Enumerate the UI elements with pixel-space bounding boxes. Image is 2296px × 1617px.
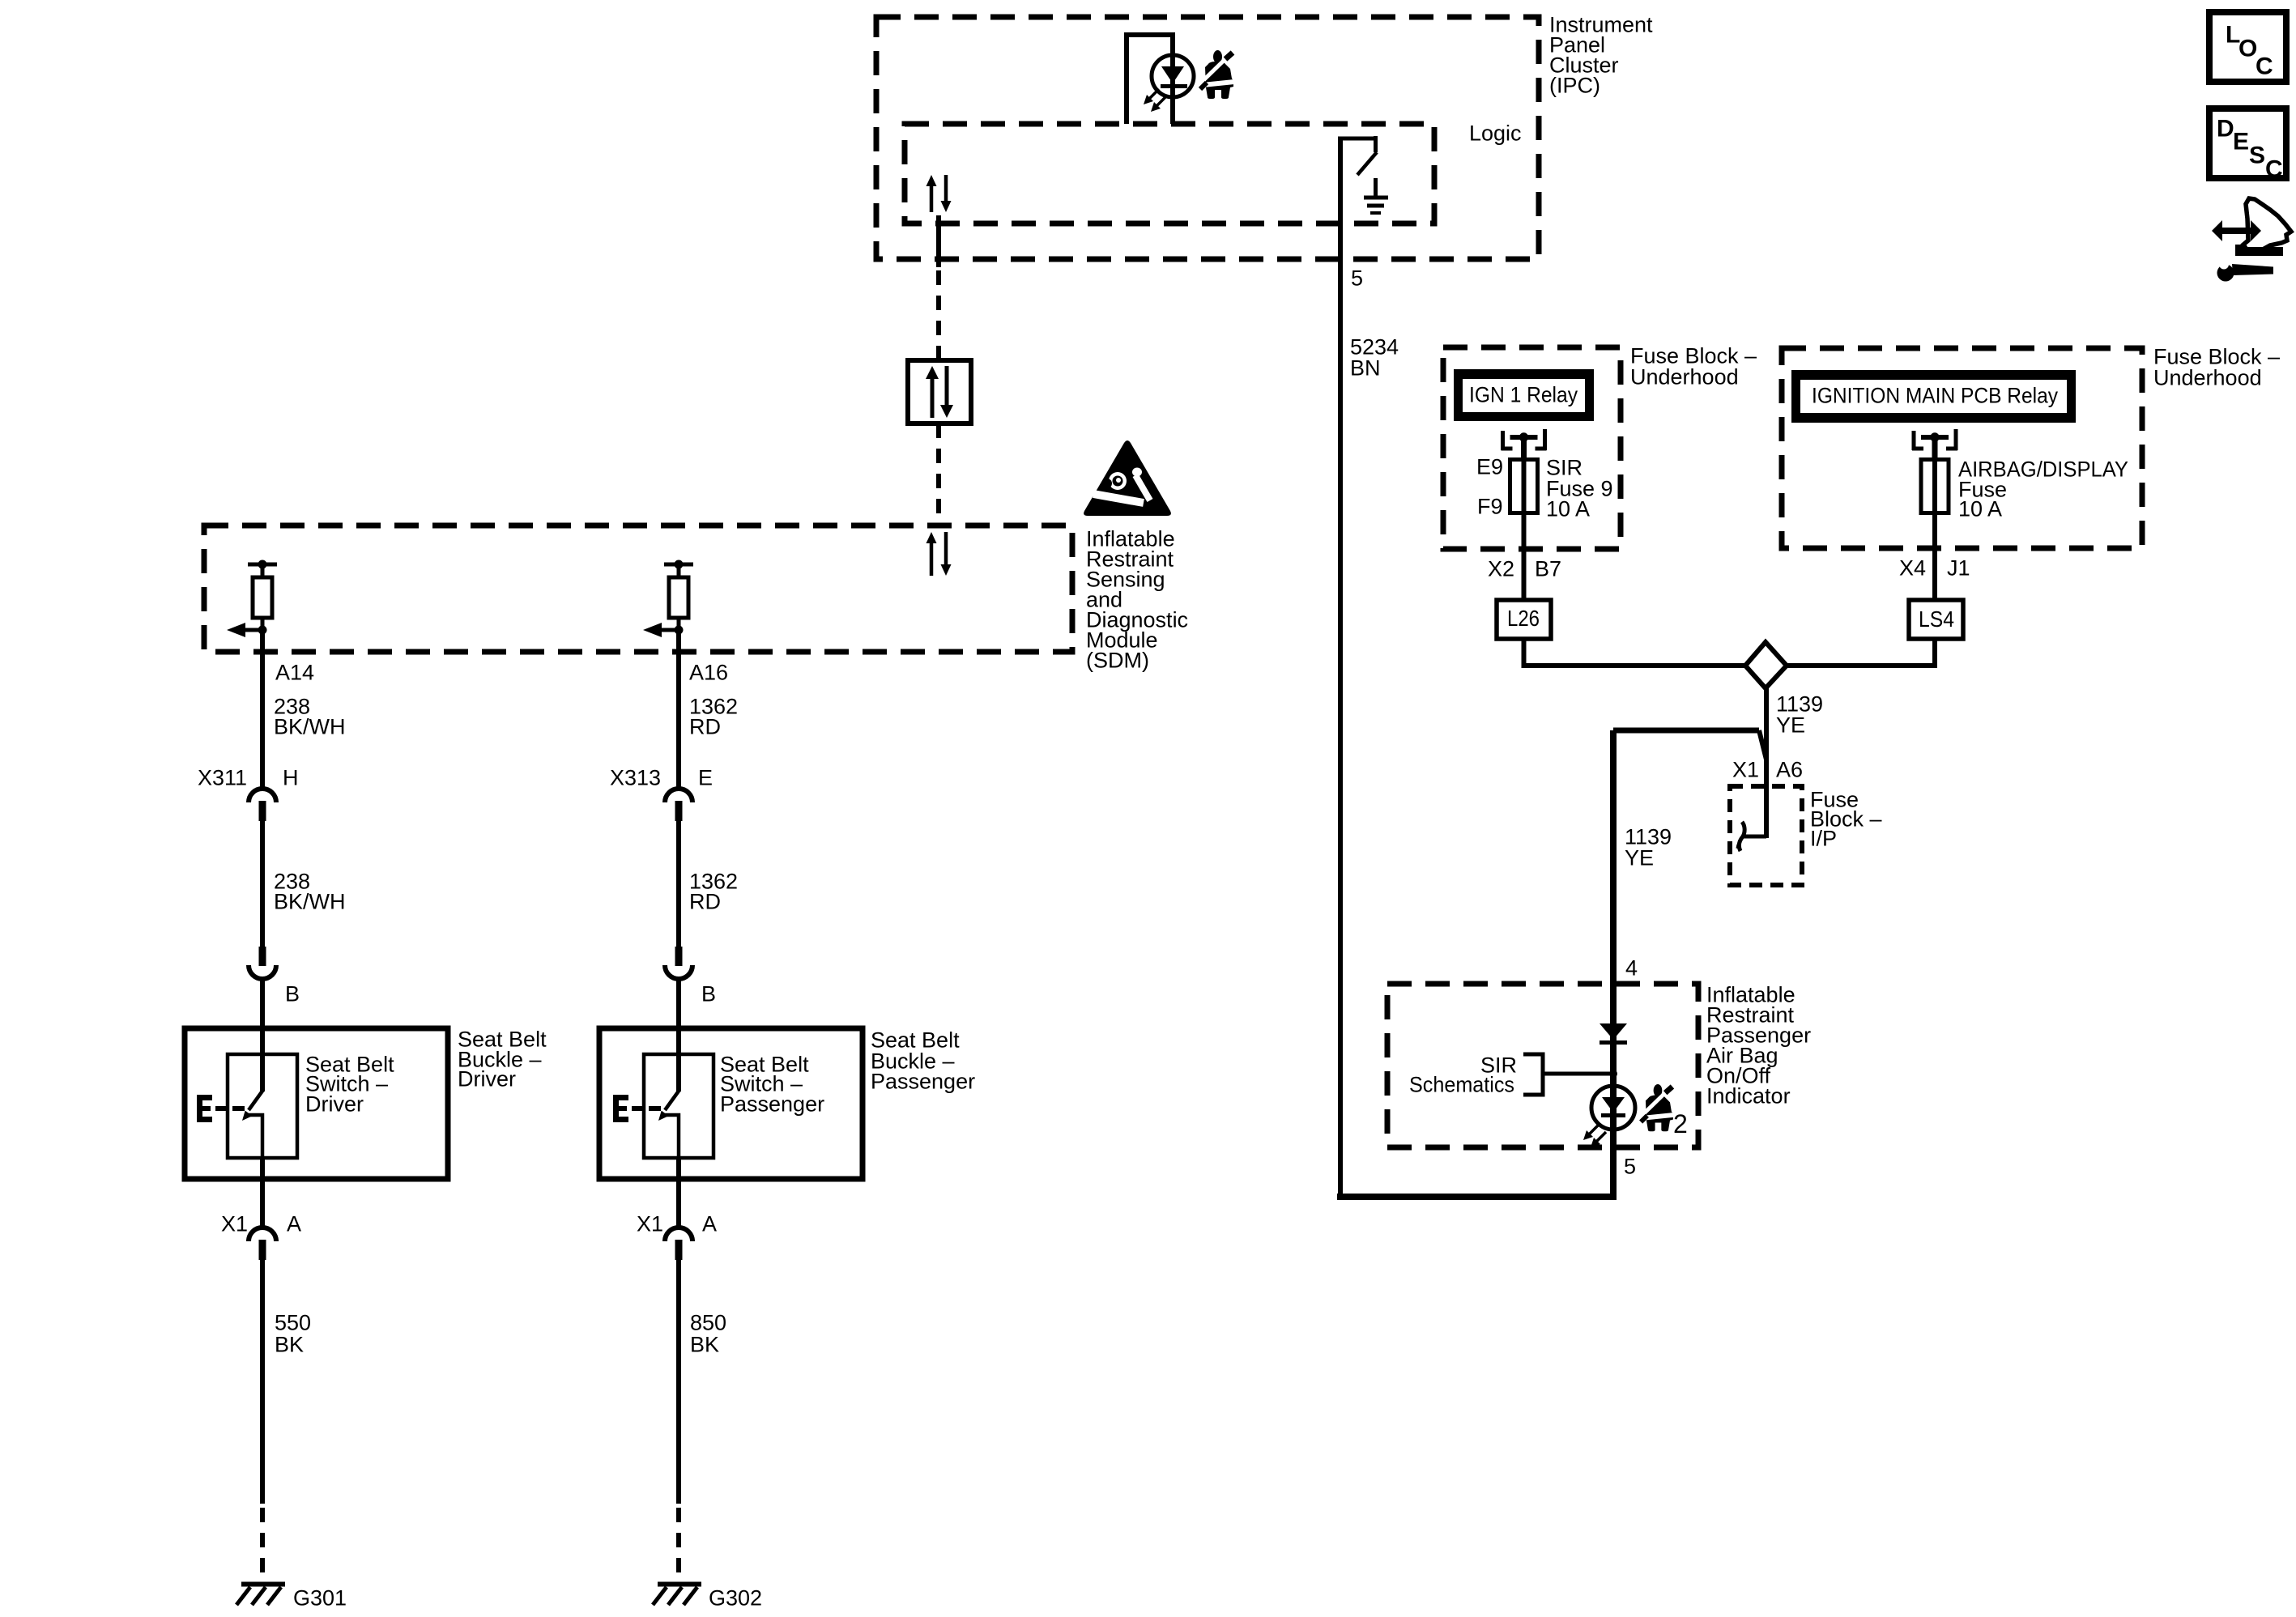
icon: double arrow (legend): [2212, 220, 2261, 241]
box: Seat Belt Switch - Passenger (inner): [644, 1054, 714, 1158]
wire: lamp loop in IPC: [1124, 35, 1175, 124]
svg-text:RD: RD: [689, 714, 721, 738]
diode: indicator input: [1600, 1023, 1627, 1045]
switch: seat belt switch blade (Driver): [242, 1090, 263, 1121]
label: L26: [1507, 606, 1540, 631]
wire: from relay through AIRBAG/DISPLAY fuse to X4-J1: [1932, 458, 1937, 600]
switch: fixed contact (Driver): [245, 1115, 262, 1158]
wire: circuit 850 BK to ground: [676, 1260, 681, 1578]
svg-text:5: 5: [1624, 1154, 1636, 1178]
wire: into seat belt buckle driver: [260, 979, 265, 1091]
label: X311 / H: [198, 765, 299, 789]
svg-text:10 A: 10 A: [1546, 496, 1590, 521]
label: AIRBAG/DISPLAY Fuse 10 A: [1958, 457, 2128, 521]
pin label: A14: [275, 660, 314, 684]
svg-text:E: E: [2233, 129, 2249, 155]
connector X313 pin E (in-line): [665, 789, 692, 821]
wire: 1362 RD between connectors: [676, 821, 681, 947]
svg-text:Passenger: Passenger: [871, 1069, 975, 1093]
svg-text:J1: J1: [1947, 555, 1970, 580]
box: Fuse Block - I/P (dashed): [1730, 786, 1802, 885]
icon: seat belt wearer pictogram (indicator): [1641, 1084, 1674, 1131]
wire: circuit 1362 RD from SDM A16: [676, 630, 681, 789]
svg-text:A14: A14: [275, 660, 314, 684]
svg-text:Driver: Driver: [458, 1066, 516, 1091]
icon: hand outline (legend): [2243, 198, 2291, 249]
switch: fixed contact (Passenger): [661, 1115, 679, 1158]
wire label: 1362 RD: [689, 694, 738, 738]
box: Seat Belt Buckle - Passenger: [599, 1028, 863, 1179]
svg-text:(SDM): (SDM): [1086, 648, 1149, 672]
svg-text:X4: X4: [1899, 555, 1926, 580]
label: LS4: [1919, 606, 1954, 632]
svg-text:BN: BN: [1350, 355, 1381, 380]
wire: circuit 1139 YE down to indicator pin 4: [1610, 730, 1617, 1197]
box: Instrument Panel Cluster (IPC) dashed outline: [876, 17, 1539, 259]
relay contact feed (IGNITION MAIN PCB Relay): [1912, 429, 1957, 460]
svg-text:G301: G301: [293, 1585, 347, 1610]
label: 2: [1673, 1109, 1688, 1138]
label: Seat Belt Buckle - Passenger: [871, 1028, 975, 1093]
switch to ground inside Logic (IPC output driver): [1338, 136, 1378, 175]
svg-text:H: H: [283, 765, 299, 789]
wire label: 550 BK: [275, 1310, 311, 1356]
svg-text:C: C: [2256, 53, 2273, 80]
wire: 238 BK/WH between connectors: [260, 821, 265, 947]
LED: passenger air bag on/off indicator lamp: [1591, 1086, 1635, 1130]
wire label: 1139 YE (at splice): [1776, 691, 1823, 737]
svg-text:(IPC): (IPC): [1549, 73, 1600, 97]
label: X2 / B7: [1488, 556, 1561, 581]
label: E (engaged position, Driver): [197, 1095, 245, 1122]
wire: circuit 238 BK/WH from SDM A14: [260, 630, 265, 789]
svg-text:10 A: 10 A: [1958, 496, 2002, 521]
box: Inflatable Restraint Sensing and Diagnostic Module (SDM) dashed outline: [204, 526, 1072, 652]
svg-text:Logic: Logic: [1469, 121, 1522, 145]
svg-text:E9: E9: [1476, 454, 1503, 479]
label: LOC letters: [2226, 22, 2273, 80]
wire label: 850 BK: [690, 1310, 726, 1356]
svg-text:X311: X311: [198, 765, 247, 789]
svg-text:B: B: [285, 981, 300, 1006]
label: Logic: [1469, 121, 1522, 145]
connector code box L26: [1497, 600, 1551, 639]
svg-text:5: 5: [1351, 266, 1363, 290]
wire: into seat belt buckle passenger: [676, 979, 681, 1091]
svg-text:RD: RD: [689, 889, 721, 913]
ground G302: [653, 1585, 701, 1606]
label: X1 / A (passenger): [637, 1211, 717, 1236]
wire: IPC serial data line (pin to SDM): [936, 215, 941, 360]
wire: buckle passenger to connector X1: [676, 1158, 681, 1228]
label: B (driver): [285, 981, 300, 1006]
LED light arrows (indicator lamp): [1583, 1125, 1606, 1147]
box: Fuse Block - Underhood (right, dashed): [1782, 348, 2142, 548]
wire: branch to indicator (angled tap): [1613, 730, 1766, 760]
svg-text:B: B: [701, 981, 716, 1006]
wire label: 5234 BN: [1350, 334, 1399, 380]
svg-text:D: D: [2217, 116, 2234, 143]
arrow: signal direction (passenger branch): [643, 623, 677, 637]
svg-text:B7: B7: [1535, 556, 1561, 581]
svg-text:YE: YE: [1776, 713, 1805, 737]
svg-text:Driver: Driver: [305, 1091, 364, 1116]
box: Logic dashed outline inside IPC: [905, 124, 1434, 223]
label: IGN 1 Relay: [1469, 382, 1578, 406]
label: E9 / F9: [1476, 454, 1503, 518]
wire label: 238 BK/WH: [274, 694, 346, 738]
symbol: circuit continuation hook inside fuse block I/P: [1736, 822, 1766, 851]
label: X1 / A (driver): [221, 1211, 301, 1236]
connector code box LS4: [1909, 600, 1963, 639]
legend box: LOC: [2209, 12, 2286, 82]
splice: diamond junction: [1745, 642, 1787, 688]
svg-text:S: S: [2249, 143, 2265, 169]
svg-text:IGN 1 Relay: IGN 1 Relay: [1469, 382, 1578, 406]
svg-text:BK/WH: BK/WH: [274, 714, 346, 738]
svg-text:X313: X313: [610, 765, 661, 789]
label: Inflatable Restraint Passenger Air Bag On/Off Indicator: [1706, 982, 1811, 1108]
resistor: SDM pull-up (passenger branch): [664, 560, 693, 635]
svg-text:YE: YE: [1625, 845, 1654, 870]
connector X1 pin A (driver): [249, 1228, 276, 1260]
connector X1 pin A (passenger): [665, 1228, 692, 1260]
wire label: 1362 RD (lower): [689, 869, 738, 913]
label: SIR Schematics (reference): [1409, 1053, 1517, 1096]
pin label: 5 (IPC): [1351, 266, 1363, 290]
ground symbol inside Logic: [1364, 178, 1388, 213]
relay IGN 1 Relay (title box): [1454, 369, 1594, 421]
label: X313 / E: [610, 765, 713, 789]
svg-text:Passenger: Passenger: [720, 1091, 824, 1116]
label: Seat Belt Buckle - Driver: [458, 1027, 547, 1091]
svg-text:4: 4: [1625, 955, 1638, 980]
connector pin B (seat belt switch passenger): [665, 947, 692, 979]
svg-text:X2: X2: [1488, 556, 1514, 581]
wire: from relay through SIR fuse to X2-B7: [1522, 458, 1527, 600]
svg-text:F9: F9: [1477, 494, 1503, 518]
svg-text:Indicator: Indicator: [1706, 1083, 1791, 1108]
svg-text:X1: X1: [1732, 757, 1759, 781]
pin label: 4: [1625, 955, 1638, 980]
label: Seat Belt Switch - Passenger: [720, 1052, 824, 1116]
node: junction at indicator LED: [1609, 1070, 1617, 1078]
connector pin B (seat belt switch driver): [249, 947, 276, 979]
svg-text:Underhood: Underhood: [2153, 365, 2262, 389]
svg-text:A: A: [702, 1211, 717, 1236]
label: B (passenger): [701, 981, 716, 1006]
box: Fuse Block - Underhood (left, dashed): [1443, 347, 1621, 549]
pin label: 5 (indicator): [1624, 1154, 1636, 1178]
svg-text:C: C: [2265, 156, 2283, 183]
label: Fuse Block - Underhood (left): [1630, 343, 1757, 389]
label: G301: [293, 1585, 347, 1610]
wire: bottom return run to indicator pin 5: [1337, 1147, 1617, 1197]
resistor: SDM pull-up (driver branch): [248, 560, 277, 635]
fuse: SIR Fuse 9 10 A: [1510, 460, 1538, 513]
label: Inflatable Restraint Sensing and Diagnostic Module (SDM): [1086, 526, 1188, 672]
svg-text:LS4: LS4: [1919, 606, 1954, 632]
svg-text:A: A: [287, 1211, 301, 1236]
icon: wrench (legend): [2217, 258, 2273, 282]
svg-text:A16: A16: [689, 660, 728, 684]
label: DESC letters: [2217, 116, 2283, 183]
svg-text:Schematics: Schematics: [1409, 1072, 1514, 1096]
svg-text:A6: A6: [1776, 757, 1803, 781]
relay contact feed (IGN 1 Relay): [1502, 429, 1547, 460]
label: Seat Belt Switch - Driver: [305, 1052, 394, 1116]
label: G302: [709, 1585, 762, 1610]
wire: dashed data line to SDM: [936, 423, 941, 526]
svg-text:850: 850: [690, 1310, 726, 1334]
svg-text:O: O: [2238, 36, 2257, 62]
box: Seat Belt Buckle - Driver: [185, 1028, 448, 1179]
label: IGNITION MAIN PCB Relay: [1812, 383, 2058, 407]
svg-text:E: E: [698, 765, 713, 789]
label: X1 / A6: [1732, 757, 1803, 781]
ground G301: [236, 1585, 285, 1606]
bidirectional data arrows inside SDM: [926, 532, 952, 576]
wire: LS4 to splice: [1786, 639, 1935, 666]
icon: seat belt wearer pictogram (IPC): [1200, 50, 1234, 99]
label: Fuse Block - Underhood (right): [2153, 344, 2280, 389]
wire label: 238 BK/WH (lower): [274, 869, 346, 913]
svg-text:L26: L26: [1507, 606, 1540, 631]
bidirectional data arrows inside Logic: [926, 175, 952, 212]
label: Fuse Block - I/P: [1810, 787, 1882, 850]
box: Inflatable Restraint Passenger Air Bag On/Off Indicator (dashed): [1387, 984, 1698, 1147]
label: Instrument Panel Cluster (IPC): [1549, 12, 1653, 97]
svg-text:Underhood: Underhood: [1630, 364, 1739, 389]
fuse: AIRBAG/DISPLAY Fuse 10 A: [1921, 460, 1949, 513]
icon: hand band (legend): [2235, 245, 2283, 256]
box: Seat Belt Switch - Driver (inner): [228, 1054, 297, 1158]
connector X311 pin H (in-line): [249, 789, 276, 821]
svg-text:BK: BK: [275, 1332, 304, 1356]
indicator LED lamp (seat belt telltale) in IPC: [1152, 55, 1194, 97]
wire: circuit 550 BK to ground: [260, 1260, 265, 1578]
svg-text:I/P: I/P: [1810, 826, 1837, 850]
legend box: DESC: [2209, 109, 2286, 178]
svg-text:BK: BK: [690, 1332, 719, 1356]
connector symbol: boxed bidirectional arrows (data link): [908, 360, 971, 423]
wire: buckle driver to connector X1: [260, 1158, 265, 1228]
switch: seat belt switch blade (Passenger): [658, 1090, 679, 1121]
bidirectional data arrows in box: [926, 366, 953, 418]
svg-text:550: 550: [275, 1310, 311, 1334]
svg-text:G302: G302: [709, 1585, 762, 1610]
label: SIR Fuse 9 10 A: [1546, 455, 1613, 521]
LED light arrows (IPC lamp): [1144, 89, 1166, 112]
wire: L26 to splice: [1524, 639, 1748, 666]
bracket: SIR Schematics reference tie: [1523, 1054, 1610, 1095]
wire: splice down to fuse block I/P X1-A6: [1764, 687, 1769, 838]
svg-text:IGNITION MAIN PCB Relay: IGNITION MAIN PCB Relay: [1812, 383, 2058, 407]
svg-text:BK/WH: BK/WH: [274, 889, 346, 913]
svg-text:X1: X1: [221, 1211, 248, 1236]
relay IGNITION MAIN PCB Relay (title box): [1791, 370, 2076, 423]
wire: IPC pin 5 circuit 5234 BN down left side: [1338, 138, 1343, 1197]
label: X4 / J1: [1899, 555, 1970, 580]
wire label: 1139 YE (to indicator): [1625, 824, 1672, 870]
arrow: signal direction (driver branch): [227, 623, 261, 637]
svg-text:2: 2: [1673, 1109, 1688, 1138]
icon: SIR warning triangle (airbag caution): [1084, 440, 1171, 516]
svg-text:X1: X1: [637, 1211, 663, 1236]
pin label: A16: [689, 660, 728, 684]
label: E (engaged position, Passenger): [613, 1095, 661, 1122]
